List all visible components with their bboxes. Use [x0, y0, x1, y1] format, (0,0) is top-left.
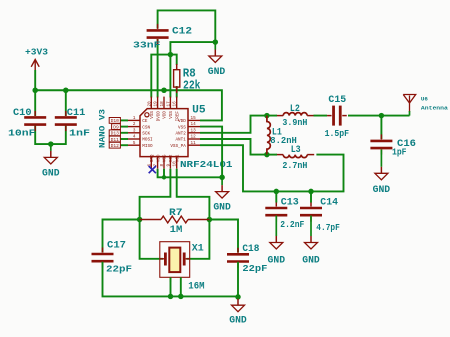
wire R8 top to gnd net [170, 55, 176, 65]
wire C18 to R7 right node [209, 220, 238, 253]
wire R7 left to crystal [140, 220, 163, 259]
svg-text:R7: R7 [169, 207, 183, 219]
junction antenna / C16 [379, 113, 385, 119]
ground below C14 [310, 216, 312, 237]
ground below C13 [275, 216, 277, 237]
svg-text:14: 14 [191, 122, 197, 127]
wire U5 pin 10 XC1 to R7 right [177, 169, 210, 220]
svg-text:22pF: 22pF [106, 265, 132, 275]
wire label D10 to U5 [120, 119, 128, 121]
inductor L3 2.7nH [283, 155, 307, 158]
wire C11 bottom to gnd node [51, 125, 66, 144]
svg-text:2.2nF: 2.2nF [280, 220, 304, 230]
svg-text:CSN: CSN [142, 125, 150, 130]
wire label D13 to U5 [120, 132, 128, 134]
junction VSS/IREF gnd net [168, 52, 174, 58]
svg-text:X1: X1 [192, 244, 204, 255]
wire C15 to antenna [348, 115, 410, 117]
svg-text:18: 18 [160, 101, 165, 107]
svg-text:U5: U5 [192, 104, 206, 116]
svg-text:GND: GND [373, 185, 391, 196]
wire C10 bottom to gnd node [35, 125, 51, 144]
svg-text:3: 3 [133, 128, 136, 133]
antenna U6 [403, 95, 416, 113]
wire C18 bottom to rail [237, 262, 239, 297]
wire U5 pin 12 ANT1 to L1 bottom [200, 139, 267, 155]
wire U5 pin 17 VSS up to gnd [170, 42, 215, 97]
junction chip gnd node [219, 175, 225, 181]
wire crystal case pin right to rail [180, 277, 182, 296]
svg-text:Antenna: Antenna [421, 106, 449, 112]
svg-text:L3: L3 [291, 145, 301, 156]
svg-text:C12: C12 [172, 27, 192, 38]
node D11 net label [109, 136, 120, 142]
svg-text:1nF: 1nF [69, 129, 90, 139]
crystal X1 16M [160, 242, 190, 278]
svg-text:C18: C18 [242, 244, 259, 255]
ground below C10/C11 [50, 144, 52, 151]
svg-text:DVDD: DVDD [156, 111, 161, 122]
svg-text:4.7pF: 4.7pF [316, 223, 340, 233]
svg-text:C11: C11 [67, 108, 86, 119]
svg-text:VSS: VSS [150, 111, 155, 119]
wire label D9 to U5 [120, 126, 128, 128]
svg-text:VSS: VSS [169, 111, 174, 119]
capacitor C11 1nF [55, 117, 77, 124]
svg-text:33nF: 33nF [133, 41, 161, 51]
wire L2 to C15 [269, 115, 327, 117]
svg-text:3.9nH: 3.9nH [282, 118, 307, 128]
no-connect cross on U5 pin 6 IRQ [149, 166, 156, 173]
wire C13 top [275, 191, 277, 202]
power flag +3V3 [31, 60, 39, 72]
svg-text:GND: GND [268, 256, 286, 267]
svg-text:12: 12 [191, 135, 197, 140]
ground below U5 [221, 177, 223, 185]
wire U5 pin 11 VSS_PA to C13/C14 rail and L3 [200, 145, 344, 191]
junction +3V3 rail / C10 [32, 88, 38, 94]
junction R7 left / XC2 [137, 217, 143, 223]
inductor L1 8.2nH [267, 116, 270, 155]
capacitor C18 22pF [227, 254, 249, 261]
junction C10 C11 gnd node [48, 141, 54, 147]
svg-text:GND: GND [213, 203, 231, 214]
svg-text:9: 9 [166, 164, 171, 167]
svg-text:VSS_PA: VSS_PA [170, 144, 186, 149]
svg-text:L2: L2 [290, 104, 300, 115]
wire crystal case pin left to rail [170, 277, 172, 296]
wire C12 bottom plate to U5 pin 19 DVDD [157, 39, 159, 98]
junction R7 right / XC1 [207, 217, 213, 223]
capacitor C14 4.7pF [300, 208, 322, 215]
capacitor C16 1pF [370, 141, 392, 148]
svg-text:22k: 22k [183, 79, 201, 93]
svg-text:13: 13 [191, 128, 197, 133]
junction node ANT2/L1/L2 [264, 113, 270, 119]
svg-text:U6: U6 [421, 97, 428, 103]
svg-text:VDD: VDD [156, 154, 161, 162]
svg-text:5: 5 [133, 141, 136, 146]
capacitor C10 10nF [24, 117, 46, 124]
svg-text:ANT2: ANT2 [175, 132, 186, 137]
svg-text:C13: C13 [281, 198, 299, 209]
svg-text:GND: GND [208, 67, 226, 78]
junction +3V3 rail / C11 [63, 88, 69, 94]
svg-text:11: 11 [191, 141, 197, 146]
junction crystal case left [168, 294, 174, 300]
svg-text:2: 2 [133, 122, 136, 127]
wire U5 pin 9 XC2 to R7 left [140, 169, 171, 220]
ground below C16 [380, 150, 382, 167]
svg-text:20: 20 [147, 101, 152, 107]
wire label D11 to U5 [120, 138, 128, 140]
node D9 net label [112, 124, 121, 130]
wire U5 pin 13 ANT2 to L1 top [200, 116, 267, 133]
wire bottom gnd rail [103, 262, 239, 297]
svg-text:1M: 1M [170, 224, 183, 236]
junction node ANT1/L1/L3 [264, 152, 270, 158]
svg-text:16: 16 [173, 101, 178, 107]
wire U5 pin 14 VSS down to gnd [200, 127, 222, 178]
inductor L2 3.9nH [283, 113, 307, 116]
svg-text:VSS: VSS [178, 125, 186, 130]
svg-text:CE: CE [142, 119, 148, 124]
junction gnd net at C12 [213, 39, 219, 45]
wire +3V3 stem [34, 70, 36, 90]
svg-text:NRF24L01: NRF24L01 [180, 159, 233, 170]
wire R8 bottom to U5 pin 16 IREF [176, 86, 178, 98]
node D12 net label [109, 142, 120, 148]
wire +3V3 rail to U5 pin 15 [35, 90, 222, 120]
wire U5 pin 8 VSS to gnd node [163, 169, 165, 178]
svg-text:15: 15 [191, 116, 197, 121]
node D10 net label [109, 118, 120, 124]
ground top near C12 [214, 42, 216, 49]
svg-text:4: 4 [133, 135, 136, 140]
svg-text:17: 17 [166, 101, 171, 107]
svg-text:VSS: VSS [163, 154, 168, 162]
wire C17 to R7 left node [103, 220, 140, 253]
svg-text:16M: 16M [188, 282, 204, 293]
svg-text:NANO V3: NANO V3 [100, 109, 108, 148]
resistor R8 22k [174, 70, 180, 87]
svg-text:MOSI: MOSI [142, 138, 153, 143]
svg-text:IRQ: IRQ [150, 154, 155, 162]
junction C13 on rail [274, 189, 280, 195]
capacitor C15 1.5pF [334, 106, 341, 126]
capacitor C17 22pF [92, 254, 114, 261]
wire C14 top [310, 191, 312, 202]
svg-text:C14: C14 [320, 198, 338, 209]
svg-text:10nF: 10nF [8, 129, 36, 139]
svg-text:8: 8 [160, 164, 165, 167]
wire C12 top plate to gnd [158, 10, 216, 42]
svg-text:MISO: MISO [142, 144, 153, 149]
svg-text:C10: C10 [13, 108, 32, 119]
junction crystal case right [178, 294, 184, 300]
wire L3 left [267, 154, 277, 156]
IC U5 NRF24L01 [140, 109, 188, 157]
svg-text:22pF: 22pF [242, 264, 267, 274]
junction pin8 gnd [162, 175, 166, 179]
junction bottom rail gnd [235, 294, 241, 300]
svg-text:GND: GND [302, 256, 320, 267]
svg-text:C15: C15 [328, 95, 346, 106]
junction C14 on rail [308, 189, 314, 195]
svg-text:GND: GND [42, 169, 60, 180]
svg-text:7: 7 [154, 164, 159, 167]
svg-text:IREF: IREF [175, 111, 180, 122]
wire U5 pin 7 VDD to gnd node [158, 169, 223, 178]
svg-text:GND: GND [229, 316, 247, 327]
svg-text:C17: C17 [107, 241, 126, 252]
capacitor C12 33nF [147, 30, 169, 37]
junction +3V3 rail / U5 VDD pin 18 [161, 88, 167, 94]
svg-text:+3V3: +3V3 [25, 47, 48, 58]
svg-text:VDD: VDD [163, 111, 168, 119]
wire U5 pin 20 VSS up [151, 55, 170, 98]
svg-text:2.7nH: 2.7nH [282, 161, 307, 171]
svg-text:1: 1 [133, 116, 136, 121]
wire R7 right to crystal [187, 220, 210, 259]
resistor R7 1M [140, 216, 210, 223]
wire C10 top [34, 90, 36, 116]
svg-text:SCK: SCK [142, 132, 150, 137]
svg-text:1pF: 1pF [392, 148, 407, 158]
wire label D12 to U5 [120, 144, 128, 146]
node D13 net label [109, 130, 120, 136]
capacitor C13 2.2nF [265, 208, 287, 215]
wire C16 top [380, 116, 382, 139]
ground bottom rail [237, 297, 239, 299]
svg-text:ANT1: ANT1 [175, 138, 186, 143]
svg-text:1.5pF: 1.5pF [325, 129, 350, 139]
svg-text:XC2: XC2 [169, 154, 174, 162]
wire C11 top [65, 90, 67, 116]
svg-text:19: 19 [154, 101, 159, 107]
svg-text:D12: D12 [111, 143, 120, 149]
